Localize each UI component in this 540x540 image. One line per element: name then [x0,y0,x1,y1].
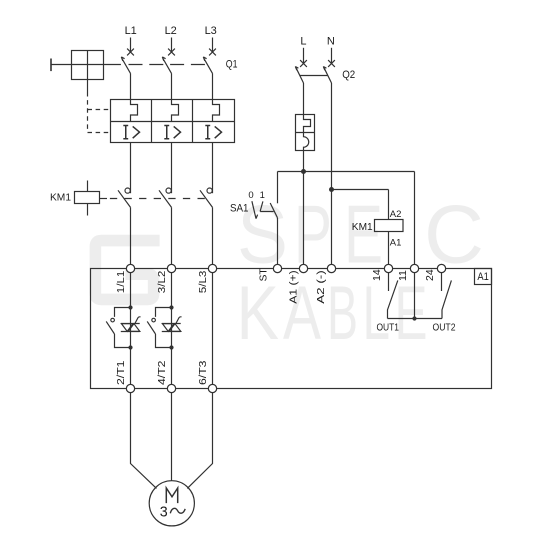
svg-text:ST: ST [258,268,270,282]
svg-text:OUT2: OUT2 [433,323,456,334]
svg-text:L3: L3 [205,25,217,37]
svg-text:0: 0 [248,190,253,201]
svg-text:3: 3 [160,505,168,521]
svg-text:C: C [424,188,484,281]
svg-text:24: 24 [424,269,436,281]
svg-text:E: E [344,188,383,281]
svg-text:OUT1: OUT1 [377,323,400,334]
svg-text:N: N [327,35,335,47]
svg-text:3/L2: 3/L2 [156,271,168,294]
svg-text:B: B [327,271,358,356]
svg-text:KM1: KM1 [50,191,71,203]
svg-text:5/L3: 5/L3 [197,271,209,294]
svg-text:14: 14 [371,269,383,281]
svg-text:A1: A1 [390,237,402,248]
svg-text:1/L1: 1/L1 [115,271,127,294]
svg-text:KM1: KM1 [352,221,373,233]
svg-text:A1 (+): A1 (+) [287,270,299,304]
svg-text:6/T3: 6/T3 [197,360,209,385]
svg-text:2/T1: 2/T1 [115,360,127,385]
svg-text:11: 11 [397,270,409,281]
svg-text:A2 (-): A2 (-) [315,270,327,304]
svg-text:Q1: Q1 [226,59,238,71]
svg-text:E: E [395,271,428,356]
svg-text:A1: A1 [477,271,489,283]
svg-text:K: K [237,271,280,356]
svg-text:A2: A2 [390,209,402,220]
svg-text:4/T2: 4/T2 [156,360,168,385]
svg-text:SA1: SA1 [230,203,249,215]
svg-text:L1: L1 [125,25,137,37]
svg-text:L2: L2 [165,25,177,37]
svg-text:L: L [363,271,391,356]
svg-text:1: 1 [260,190,265,201]
svg-text:L: L [300,35,306,47]
svg-text:Q2: Q2 [342,69,355,81]
